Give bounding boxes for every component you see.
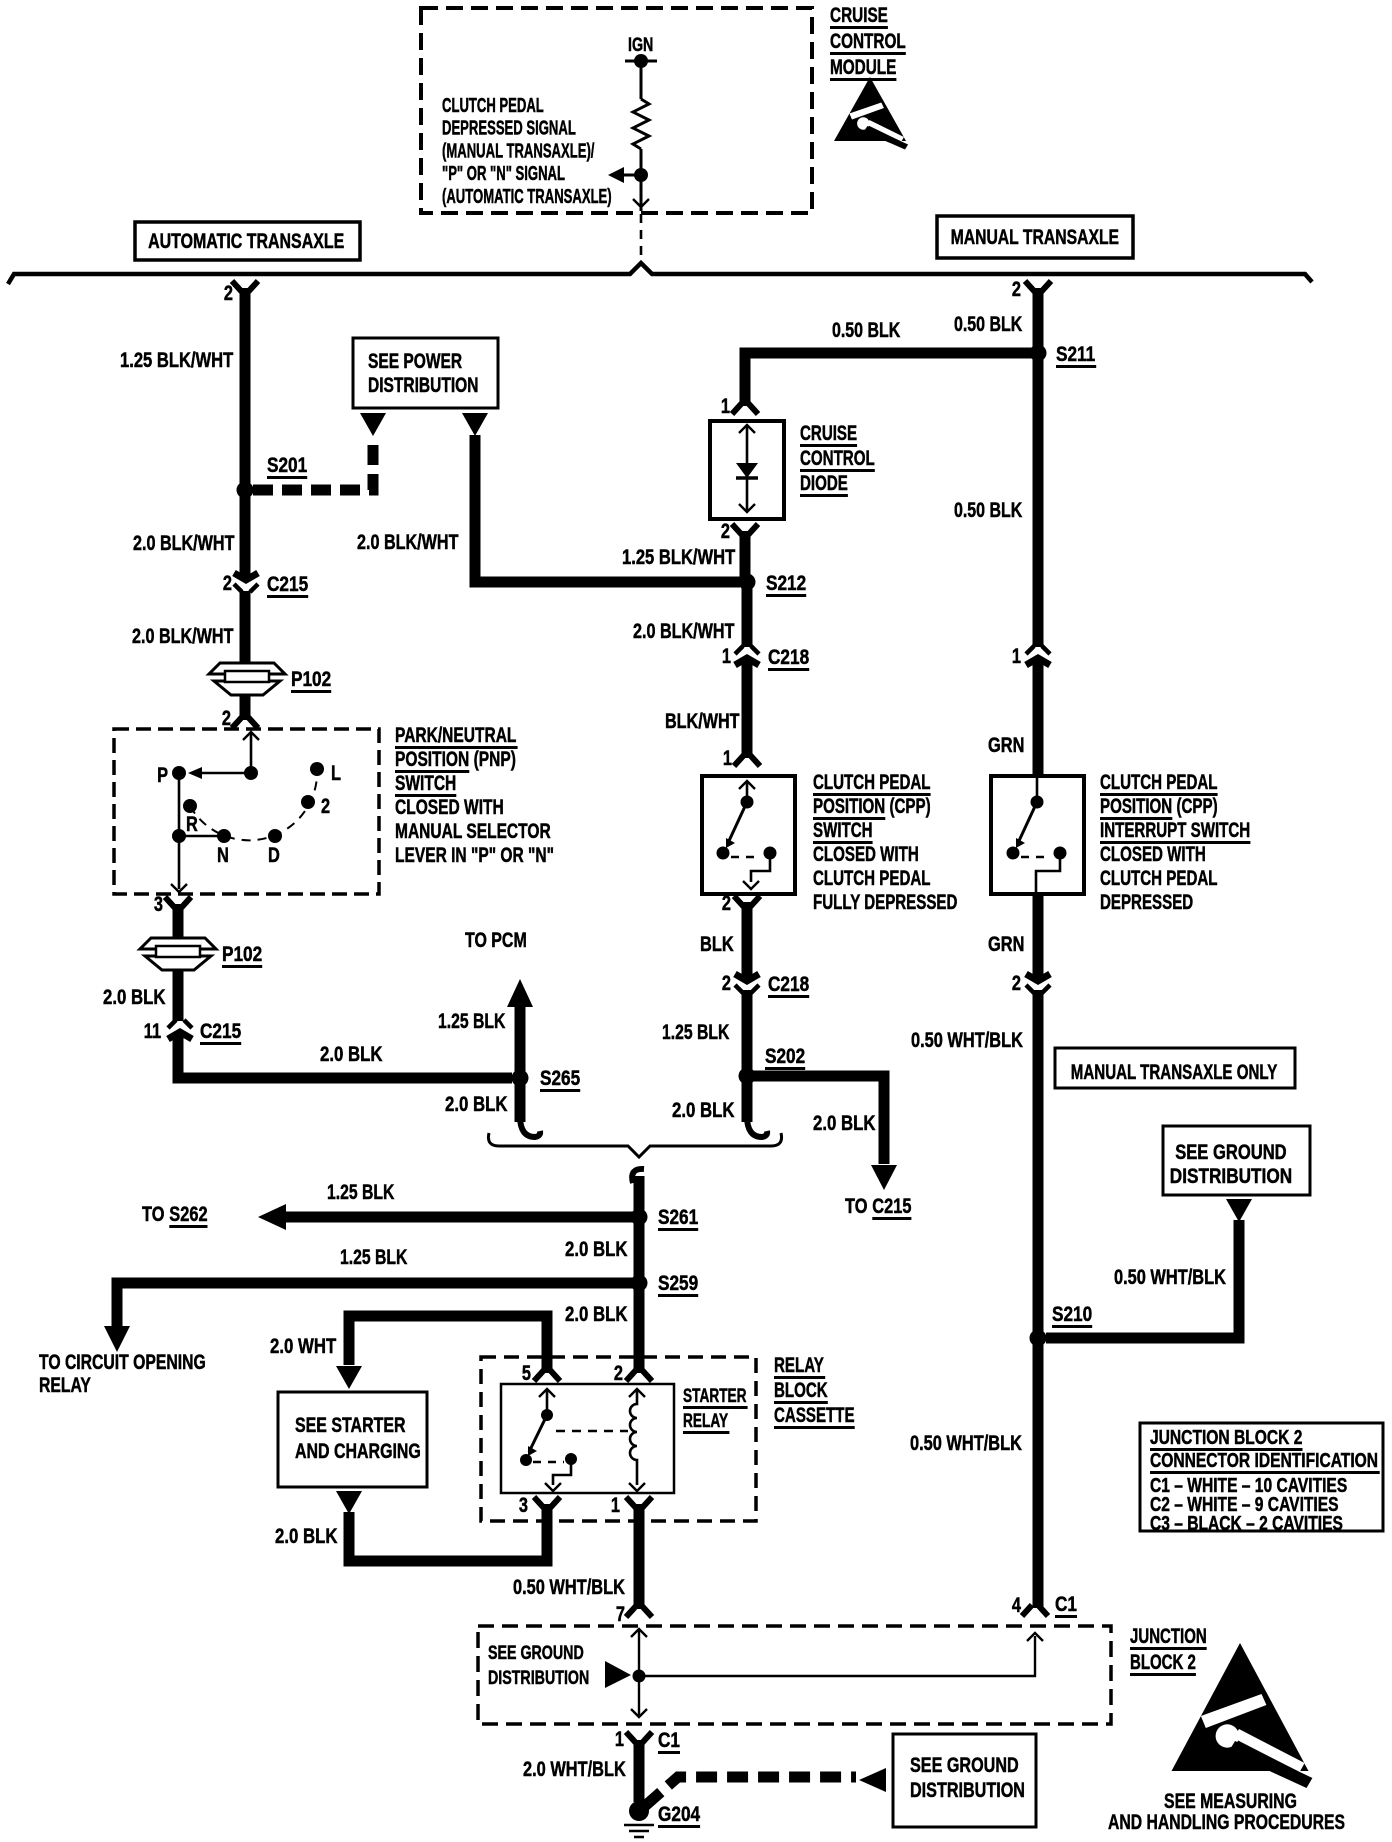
wire 2.0 WHT from relay pin5 xyxy=(349,1316,547,1373)
wire S212 to C218 xyxy=(742,582,753,647)
svg-text:1: 1 xyxy=(1012,644,1021,667)
connector C215 (pin 2) xyxy=(234,573,258,580)
interrupt exit wire xyxy=(1036,853,1060,892)
label BLK/WHT xyxy=(665,709,740,733)
label 2.0 BLK (S265 down) xyxy=(445,1093,508,1116)
pin 2 label (CPP) xyxy=(722,891,731,914)
wire S265 to PCM arrow xyxy=(515,1006,526,1078)
label 2.0 BLK/WHT (S201-C215) xyxy=(133,531,235,555)
label 0.50 BLK (S211 left) xyxy=(832,318,901,342)
label 0.50 WHT/BLK (S210) xyxy=(1114,1265,1226,1288)
label 2.0 WHT xyxy=(270,1335,337,1358)
cruise control module dashed box xyxy=(421,8,812,213)
svg-text:CONTROL: CONTROL xyxy=(830,29,906,53)
connector C215 (pin 11) xyxy=(168,1020,192,1028)
wire node to module pin xyxy=(640,175,643,211)
svg-text:CLUTCH PEDAL: CLUTCH PEDAL xyxy=(813,865,930,889)
svg-text:S202: S202 xyxy=(765,1046,805,1069)
label IGN xyxy=(628,34,653,55)
wire connector to interrupt box xyxy=(1033,661,1044,778)
svg-text:MANUAL SELECTOR: MANUAL SELECTOR xyxy=(395,819,551,843)
splice S201 xyxy=(237,482,254,499)
wire CPP to C218 lower xyxy=(742,902,753,978)
PNP selector arc dashed xyxy=(190,769,317,840)
box JUNCTION BLOCK 2 CONNECTOR IDENTIFICATION xyxy=(1140,1423,1383,1531)
label BLK xyxy=(700,932,734,955)
PNP contact L xyxy=(310,762,324,776)
label GRN (upper) xyxy=(988,733,1024,756)
label 0.50 BLK (top) xyxy=(954,312,1023,336)
label TO CIRCUIT OPENING RELAY xyxy=(39,1350,206,1374)
svg-text:C1: C1 xyxy=(658,1730,680,1753)
wire interrupt to connector 2 xyxy=(1033,892,1044,978)
interrupt blade xyxy=(1018,802,1037,843)
svg-text:GRN: GRN xyxy=(988,733,1024,756)
svg-text:0.50 BLK: 0.50 BLK xyxy=(954,498,1023,522)
svg-text:P: P xyxy=(157,763,168,786)
svg-text:CLOSED WITH: CLOSED WITH xyxy=(813,841,919,865)
label CRUISE CONTROL MODULE xyxy=(830,3,888,27)
PNP arrow up to pin xyxy=(243,732,259,740)
svg-text:0.50 WHT/BLK: 0.50 WHT/BLK xyxy=(513,1575,625,1598)
wire C215 to P102 xyxy=(240,591,251,663)
svg-text:BLK: BLK xyxy=(700,932,734,955)
svg-text:1.25 BLK/WHT: 1.25 BLK/WHT xyxy=(622,546,736,569)
svg-text:1.25 BLK/WHT: 1.25 BLK/WHT xyxy=(120,349,234,372)
svg-text:POSITION: POSITION xyxy=(813,793,885,817)
svg-text:PARK/NEUTRAL: PARK/NEUTRAL xyxy=(395,723,516,747)
svg-text:2.0 BLK: 2.0 BLK xyxy=(813,1112,876,1135)
svg-text:2.0 BLK/WHT: 2.0 BLK/WHT xyxy=(633,619,735,643)
interrupt feed wire xyxy=(1036,778,1039,797)
svg-text:BLOCK: BLOCK xyxy=(774,1377,828,1401)
svg-text:SEE GROUND: SEE GROUND xyxy=(1175,1141,1286,1164)
svg-text:JUNCTION BLOCK 2: JUNCTION BLOCK 2 xyxy=(1150,1426,1302,1448)
label 0.50 WHT/BLK (upper) xyxy=(911,1028,1023,1051)
pin 1 label (diode) xyxy=(721,394,730,417)
svg-text:(AUTOMATIC TRANSAXLE): (AUTOMATIC TRANSAXLE) xyxy=(442,185,612,207)
svg-text:DISTRIBUTION: DISTRIBUTION xyxy=(488,1667,589,1688)
wire bus to S211 xyxy=(1033,288,1044,353)
svg-text:MODULE: MODULE xyxy=(830,55,896,79)
svg-text:5: 5 xyxy=(522,1361,531,1384)
arrow out of SEE STARTER box (bottom) xyxy=(336,1491,362,1514)
label 0.50 WHT/BLK (pin1) xyxy=(513,1575,625,1598)
CPP contact left xyxy=(717,847,730,860)
label clutch pedal depressed signal xyxy=(442,94,544,116)
svg-text:S210: S210 xyxy=(1052,1304,1092,1327)
svg-text:2.0 BLK: 2.0 BLK xyxy=(445,1093,508,1116)
svg-text:CRUISE: CRUISE xyxy=(830,3,888,27)
CPP common dot xyxy=(741,796,754,809)
pin 2 label (manual) xyxy=(1012,277,1021,300)
svg-text:4: 4 xyxy=(1012,1593,1022,1616)
PNP wire wiper to P with arrow xyxy=(196,772,251,775)
svg-text:(MANUAL TRANSAXLE)/: (MANUAL TRANSAXLE)/ xyxy=(442,140,595,162)
svg-text:CLOSED WITH: CLOSED WITH xyxy=(395,795,504,819)
CPP blade xyxy=(728,802,747,843)
label CRUISE CONTROL DIODE xyxy=(800,420,857,444)
PNP contact P xyxy=(172,766,186,780)
label 0.50 WHT/BLK (to C1) xyxy=(910,1431,1022,1454)
svg-text:C215: C215 xyxy=(200,1021,241,1044)
CPP arrow up xyxy=(739,781,755,789)
connector pin 5 xyxy=(534,1370,560,1381)
relay contact right xyxy=(565,1453,577,1465)
label GRN (lower) xyxy=(988,932,1024,955)
connector C1 pin 1 xyxy=(626,1732,652,1743)
wire pin1 to junction block xyxy=(634,1504,645,1609)
pin 2 label xyxy=(614,1361,623,1384)
label 2.0 BLK (starter gnd) xyxy=(275,1525,338,1548)
svg-text:2.0 BLK: 2.0 BLK xyxy=(275,1525,338,1548)
svg-text:P102: P102 xyxy=(291,669,331,692)
ground G204 xyxy=(629,1801,649,1821)
starter relay box xyxy=(501,1384,674,1493)
svg-text:POSITION: POSITION xyxy=(395,747,469,771)
interrupt contact left xyxy=(1007,847,1020,860)
svg-text:SEE STARTER: SEE STARTER xyxy=(295,1413,406,1437)
connector C1 pin 4 xyxy=(1022,1605,1048,1616)
label STARTER RELAY xyxy=(683,1385,747,1407)
label JUNCTION BLOCK 2 xyxy=(1130,1623,1207,1647)
pin 4 label xyxy=(1012,1593,1022,1616)
svg-text:C215: C215 xyxy=(872,1194,911,1217)
svg-text:L: L xyxy=(331,761,341,784)
svg-text:2.0 BLK/WHT: 2.0 BLK/WHT xyxy=(357,530,459,554)
wire S210 to C1-4 xyxy=(1033,1338,1044,1608)
svg-text:CASSETTE: CASSETTE xyxy=(774,1402,855,1426)
CPP switch box xyxy=(702,776,795,894)
interrupt dashed link xyxy=(1021,856,1051,859)
svg-text:AUTOMATIC TRANSAXLE: AUTOMATIC TRANSAXLE xyxy=(148,229,344,253)
connector Y into PNP box xyxy=(232,717,258,728)
svg-text:2: 2 xyxy=(722,891,731,914)
connector C218 lower xyxy=(735,974,759,981)
pin 3 label xyxy=(154,892,163,915)
svg-text:STARTER: STARTER xyxy=(683,1385,747,1407)
grommet P102 lower xyxy=(140,938,216,970)
box SEE GROUND DISTRIBUTION (bottom) xyxy=(893,1734,1036,1827)
ESD warning symbol (module) xyxy=(834,77,908,150)
label SEE GROUND DISTRIBUTION (JB2) xyxy=(488,1642,584,1663)
svg-text:CONTROL: CONTROL xyxy=(800,445,875,469)
pin 1 label (interrupt) xyxy=(1012,644,1021,667)
wire P102 to C215 lower xyxy=(173,970,184,1021)
wire main bus xyxy=(8,263,1312,284)
wire bus to S201 xyxy=(240,288,251,490)
svg-text:S265: S265 xyxy=(540,1068,580,1091)
label 2.0 BLK/WHT (S212) xyxy=(633,619,735,643)
cruise control diode box xyxy=(710,421,784,519)
wire center ground trunk xyxy=(634,1176,645,1373)
wire C218 to CPP switch xyxy=(742,661,753,758)
svg-text:2.0 BLK/WHT: 2.0 BLK/WHT xyxy=(132,624,234,648)
svg-text:S201: S201 xyxy=(267,455,307,478)
wire brace gather xyxy=(488,1133,781,1157)
svg-text:2: 2 xyxy=(722,971,731,994)
svg-text:SWITCH: SWITCH xyxy=(813,817,873,841)
interrupt common dot xyxy=(1031,796,1044,809)
svg-text:0.50 WHT/BLK: 0.50 WHT/BLK xyxy=(911,1028,1023,1051)
connector Y at bus (right) xyxy=(1025,281,1051,292)
pin 2 label (diode) xyxy=(721,519,730,542)
pin 1 label xyxy=(611,1493,620,1516)
JB2 internal wire to C1-4 xyxy=(639,1636,1035,1676)
label MANUAL TRANSAXLE box xyxy=(937,216,1133,258)
CPP interrupt switch box xyxy=(991,776,1084,894)
svg-text:(CPP): (CPP) xyxy=(885,793,930,817)
svg-text:2: 2 xyxy=(222,706,231,729)
svg-text:D: D xyxy=(268,843,280,866)
svg-text:0.50 WHT/BLK: 0.50 WHT/BLK xyxy=(910,1431,1022,1454)
svg-text:SEE POWER: SEE POWER xyxy=(368,349,462,373)
svg-text:C3 – BLACK – 2 CAVITIES: C3 – BLACK – 2 CAVITIES xyxy=(1150,1512,1343,1534)
splice S259 xyxy=(631,1275,648,1292)
connector Y below PNP xyxy=(165,897,191,908)
splice S212 xyxy=(739,574,756,591)
wire diode to S212 xyxy=(740,531,751,582)
splice S261 xyxy=(631,1209,648,1226)
label 2.0 WHT/BLK xyxy=(523,1757,626,1780)
wire SEE STARTER to relay pin3 xyxy=(349,1504,547,1561)
svg-text:BLOCK 2: BLOCK 2 xyxy=(1130,1649,1196,1673)
wire C215 to S265 xyxy=(178,1035,512,1078)
JB2 vertical arrow xyxy=(631,1629,647,1637)
pin 1 label (CPP) xyxy=(723,746,732,769)
PNP wire to N xyxy=(179,835,224,838)
svg-text:RELAY: RELAY xyxy=(774,1352,824,1376)
svg-text:C218: C218 xyxy=(768,974,809,997)
label CLUTCH PEDAL POSITION (CPP) INTERRUPT SWITCH xyxy=(1100,769,1217,793)
wire dashed G204 to ground distribution xyxy=(645,1777,856,1806)
svg-text:DEPRESSED: DEPRESSED xyxy=(1100,889,1193,913)
label 2.0 BLK (P102-C215) xyxy=(103,986,166,1009)
svg-text:CLUTCH PEDAL: CLUTCH PEDAL xyxy=(1100,865,1217,889)
label 2.0 BLK (S202 down) xyxy=(672,1099,735,1122)
relay actuate dashed link xyxy=(556,1430,628,1433)
svg-text:C215: C215 xyxy=(267,574,308,597)
pin 3 label xyxy=(519,1493,528,1516)
grommet P102 xyxy=(209,663,285,695)
label AUTOMATIC TRANSAXLE box xyxy=(135,222,360,260)
wire C1 to G204 xyxy=(634,1740,645,1802)
svg-text:1: 1 xyxy=(611,1493,620,1516)
splice S265 xyxy=(512,1070,529,1087)
connector right branch lower xyxy=(1026,974,1050,981)
svg-text:BLK/WHT: BLK/WHT xyxy=(665,709,740,733)
wire connector to S210 xyxy=(1033,990,1044,1338)
svg-text:LEVER IN "P" OR "N": LEVER IN "P" OR "N" xyxy=(395,843,554,867)
box SEE STARTER AND CHARGING xyxy=(278,1392,427,1487)
CPP contact right xyxy=(764,847,777,860)
connector Y at bus (left) xyxy=(232,281,258,292)
wire S259 to circuit opening relay xyxy=(117,1283,639,1326)
svg-text:2.0 WHT: 2.0 WHT xyxy=(270,1335,337,1358)
svg-text:FULLY DEPRESSED: FULLY DEPRESSED xyxy=(813,889,957,913)
JB2 node dot xyxy=(633,1670,646,1683)
wire S202 down to brace xyxy=(742,1076,753,1122)
pin 2 label (interrupt) xyxy=(1012,971,1021,994)
wire PNP to P102 lower xyxy=(173,904,184,939)
wire dashed S201 to power distribution xyxy=(253,437,373,490)
PNP switch dashed box xyxy=(114,729,379,894)
junction block 2 dashed box xyxy=(478,1626,1111,1724)
svg-text:CRUISE: CRUISE xyxy=(800,420,857,444)
relay switch common dot xyxy=(541,1409,553,1421)
label 2.0 BLK/WHT (C215-P102) xyxy=(132,624,234,648)
svg-text:MANUAL TRANSAXLE: MANUAL TRANSAXLE xyxy=(951,225,1119,249)
PNP contact 2 xyxy=(301,795,315,809)
svg-text:7: 7 xyxy=(616,1602,625,1625)
svg-text:2: 2 xyxy=(614,1361,623,1384)
svg-text:POSITION: POSITION xyxy=(1100,793,1172,817)
svg-text:IGN: IGN xyxy=(628,34,653,55)
arrow left (signal out) xyxy=(624,174,641,177)
label 2.0 BLK (to S265) xyxy=(320,1043,383,1066)
relay block cassette dashed box xyxy=(481,1357,756,1521)
svg-text:TO: TO xyxy=(142,1202,169,1225)
svg-text:JUNCTION: JUNCTION xyxy=(1130,1623,1207,1647)
svg-text:3: 3 xyxy=(519,1493,528,1516)
PNP contact R xyxy=(183,799,197,813)
svg-text:2.0 BLK/WHT: 2.0 BLK/WHT xyxy=(133,531,235,555)
pin 1 label (C218) xyxy=(722,644,731,667)
svg-text:S259: S259 xyxy=(658,1273,698,1296)
connector diode pin 2 xyxy=(732,524,758,535)
pin 2 label (automatic) xyxy=(224,281,233,304)
node IGN terminal xyxy=(625,60,657,63)
svg-text:11: 11 xyxy=(144,1019,161,1042)
pin 2 label (C218) xyxy=(722,971,731,994)
label 2.0 BLK/WHT (power dist wire) xyxy=(357,530,459,554)
svg-text:C218: C218 xyxy=(768,647,809,670)
wire S211 to interrupt switch xyxy=(1033,353,1044,647)
svg-text:1: 1 xyxy=(615,1727,624,1750)
arrow right (ground distribution feed) xyxy=(605,1661,631,1688)
svg-text:1.25 BLK: 1.25 BLK xyxy=(662,1020,730,1044)
arrow into wire from power distribution (right) xyxy=(462,413,488,436)
pin 1 label (C1) xyxy=(615,1727,624,1750)
svg-text:GRN: GRN xyxy=(988,932,1024,955)
splice S210 xyxy=(1030,1330,1047,1347)
svg-text:RELAY: RELAY xyxy=(39,1373,91,1397)
wire P102 to PNP switch xyxy=(240,695,251,720)
svg-text:2: 2 xyxy=(223,571,232,594)
svg-text:2.0 BLK: 2.0 BLK xyxy=(103,986,166,1009)
label CLUTCH PEDAL POSITION (CPP) SWITCH xyxy=(813,769,930,793)
diode symbol xyxy=(739,425,755,433)
label RELAY BLOCK CASSETTE xyxy=(774,1352,824,1376)
svg-text:2: 2 xyxy=(1012,277,1021,300)
svg-text:TO: TO xyxy=(845,1194,872,1217)
svg-text:INTERRUPT SWITCH: INTERRUPT SWITCH xyxy=(1100,817,1250,841)
svg-text:2.0 BLK: 2.0 BLK xyxy=(672,1099,735,1122)
svg-text:"P" OR "N" SIGNAL: "P" OR "N" SIGNAL xyxy=(442,162,565,184)
svg-text:1.25 BLK: 1.25 BLK xyxy=(438,1009,506,1033)
svg-text:1.25 BLK: 1.25 BLK xyxy=(340,1245,408,1269)
svg-text:CLUTCH PEDAL: CLUTCH PEDAL xyxy=(813,769,930,793)
svg-text:AND CHARGING: AND CHARGING xyxy=(295,1439,421,1463)
connector right branch upper xyxy=(1026,646,1050,654)
wire S261 to S262 arrow xyxy=(286,1212,639,1223)
svg-text:2: 2 xyxy=(721,519,730,542)
resistor (clutch pedal signal pull-up) xyxy=(633,99,649,149)
pin 2 label (PNP) xyxy=(222,706,231,729)
svg-text:(CPP): (CPP) xyxy=(1172,793,1217,817)
svg-text:SEE GROUND: SEE GROUND xyxy=(488,1642,584,1663)
PNP wire exit down xyxy=(178,836,181,889)
wire brace to S261 hook xyxy=(632,1169,644,1183)
label SEE MEASURING AND HANDLING PROCEDURES xyxy=(1164,1789,1297,1813)
connector pin 3 xyxy=(534,1497,560,1508)
relay wire contact to pin3 xyxy=(553,1459,571,1485)
svg-text:TO CIRCUIT OPENING: TO CIRCUIT OPENING xyxy=(39,1350,206,1374)
box MANUAL TRANSAXLE ONLY xyxy=(1055,1048,1295,1088)
pin 5 label xyxy=(522,1361,531,1384)
svg-text:DISTRIBUTION: DISTRIBUTION xyxy=(1170,1166,1292,1189)
pin 7 label xyxy=(616,1602,625,1625)
wire S265 down to brace xyxy=(515,1078,526,1122)
relay contact left xyxy=(520,1454,532,1466)
label 2.0 BLK (S202 right) xyxy=(813,1112,876,1135)
label 0.50 BLK (lower) xyxy=(954,498,1023,522)
ESD warning symbol (junction block) xyxy=(1172,1643,1313,1788)
connector C218 upper xyxy=(735,646,759,654)
svg-text:2.0 WHT/BLK: 2.0 WHT/BLK xyxy=(523,1757,626,1780)
label 1.25 BLK (S261) xyxy=(327,1180,395,1204)
svg-text:TO PCM: TO PCM xyxy=(465,928,527,952)
connector pin 7 xyxy=(626,1606,652,1617)
relay contact dashed link xyxy=(533,1461,564,1464)
label 1.25 BLK (S259) xyxy=(340,1245,408,1269)
wire C218 to S202 xyxy=(742,990,753,1076)
svg-text:(PNP): (PNP) xyxy=(469,747,516,771)
svg-text:0.50 BLK: 0.50 BLK xyxy=(832,318,901,342)
box SEE POWER DISTRIBUTION xyxy=(353,338,498,408)
arrow down at module boundary xyxy=(633,199,649,207)
arrow from ground distribution box xyxy=(859,1768,886,1792)
svg-text:C1: C1 xyxy=(1055,1594,1077,1617)
svg-text:1: 1 xyxy=(722,644,731,667)
wire resistor to node xyxy=(640,149,643,175)
PNP contact N xyxy=(217,829,231,843)
svg-text:2.0 BLK: 2.0 BLK xyxy=(565,1303,628,1326)
svg-text:0.50 BLK: 0.50 BLK xyxy=(954,312,1023,336)
svg-text:2.0 BLK: 2.0 BLK xyxy=(320,1043,383,1066)
wire dashed module to bus xyxy=(640,214,643,260)
svg-text:3: 3 xyxy=(154,892,163,915)
PNP contact D xyxy=(268,829,282,843)
svg-text:RELAY: RELAY xyxy=(683,1410,728,1432)
wire ground distribution to S210 xyxy=(1046,1220,1239,1338)
arrow into wire from power distribution (left) xyxy=(360,413,386,436)
relay coil xyxy=(629,1389,645,1397)
svg-text:1.25 BLK: 1.25 BLK xyxy=(327,1180,395,1204)
svg-text:SEE GROUND: SEE GROUND xyxy=(910,1753,1019,1777)
wire power distribution to S212 xyxy=(475,435,740,582)
svg-text:CONNECTOR IDENTIFICATION: CONNECTOR IDENTIFICATION xyxy=(1150,1449,1378,1471)
label 1.25 BLK/WHT (to S212) xyxy=(622,546,736,569)
arrow into SEE STARTER box (top) xyxy=(336,1366,362,1389)
node junction dot xyxy=(634,168,648,182)
interrupt contact right xyxy=(1054,847,1067,860)
wire S211 to diode xyxy=(745,353,1038,406)
label 2.0 BLK (S259 down) xyxy=(565,1303,628,1326)
svg-text:2: 2 xyxy=(1012,971,1021,994)
svg-text:MANUAL TRANSAXLE ONLY: MANUAL TRANSAXLE ONLY xyxy=(1071,1059,1277,1083)
relay switch arrow up xyxy=(539,1389,555,1397)
